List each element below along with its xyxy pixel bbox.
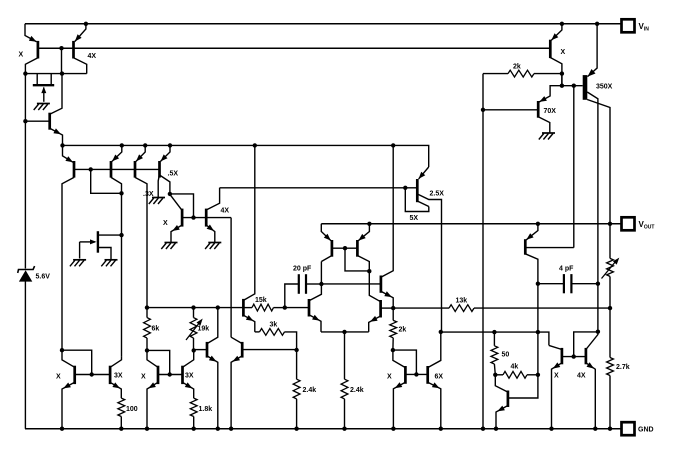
node dot bias bus left end: [60, 143, 64, 147]
transistor PNP source bar 74: [73, 161, 76, 178]
wire y307 row left: [147, 307, 243, 309]
node dot mid right base / 3k: [294, 348, 298, 352]
transistor PNP source bar 135: [134, 161, 137, 178]
wire bases to node: [61, 48, 63, 73]
transistor 4X4 emitter arrow: [587, 362, 595, 368]
transistor 5X collector diag: [417, 201, 429, 207]
wire VIN top rail: [25, 23, 622, 25]
transistor 3X1 emitter: [110, 382, 121, 398]
svg-text:2.5X: 2.5X: [430, 191, 445, 198]
resistor 50: [491, 346, 498, 364]
svg-text:4X: 4X: [577, 373, 586, 380]
node dot 2k node: [391, 306, 395, 310]
transistor mirPNP-R collector: [357, 256, 369, 272]
JFET J2 source: [98, 248, 111, 260]
svg-text:5.6V: 5.6V: [36, 274, 51, 281]
wire pair2 base line: [158, 374, 183, 376]
transistor 350X emitter: [588, 24, 598, 77]
svg-text:2.4k: 2.4k: [303, 387, 317, 394]
svg-text:X: X: [141, 374, 146, 381]
transistor X3 bar: [404, 366, 407, 384]
transistor midR collector: [231, 337, 242, 343]
node dot top rail / 4X emitter: [84, 22, 88, 26]
transistor midL emitter arrow: [209, 356, 217, 362]
terminal GND box: [622, 422, 635, 435]
wire 4k right lead: [527, 374, 538, 376]
node dot midL collector: [216, 305, 220, 309]
wire 15k left lead: [243, 307, 252, 309]
transistor lower NPN emitter arrow: [370, 316, 378, 322]
transistor upper NPN collector: [381, 145, 393, 277]
resistor 15k: [252, 304, 274, 311]
node dot 350X base mid: [572, 84, 576, 88]
wire out mirror base line: [562, 356, 586, 358]
svg-text:3k: 3k: [270, 322, 278, 329]
transistor X1 bar: [73, 366, 76, 384]
svg-text:1.8k: 1.8k: [199, 406, 213, 413]
transistor 4X top-left PNP collector: [74, 58, 87, 74]
transistor X4 emitter: [552, 363, 562, 429]
svg-text:2.4k: 2.4k: [350, 387, 364, 394]
node dot X4 emitter bus: [549, 427, 553, 431]
wire 100 bottom: [120, 417, 122, 429]
node dot X1 emitter bus: [60, 427, 64, 431]
node dot 2.7k bus: [608, 427, 612, 431]
transistor X4 bar: [561, 348, 564, 364]
zener D1 5.6V anode triangle: [19, 270, 32, 281]
transistor diffL emitter: [309, 315, 321, 332]
transistor PNP-111 emitter: [112, 145, 122, 161]
node dot 2k right: [560, 71, 564, 75]
node dot 2k bottom: [391, 348, 395, 352]
node dot Q4k emitter bus: [494, 427, 498, 431]
JFET J2 gate lead: [80, 241, 95, 243]
node dot mirror bases: [191, 215, 195, 219]
svg-text:X: X: [554, 373, 559, 380]
transistor midR emitter: [231, 356, 242, 429]
wire tail to 2.4k-2: [344, 332, 346, 379]
wire far-left vertical lower: [24, 282, 26, 429]
transistor 2.5X emitter arrow: [419, 172, 426, 179]
node dot jog base: [89, 167, 93, 171]
node dot 20pF node: [319, 282, 323, 286]
transistor lower NPN bar: [379, 300, 382, 318]
resistor 19k arrow tail: [186, 322, 200, 340]
transistor outPNP collector: [525, 254, 538, 375]
transistor X top-left PNP collector: [25, 58, 38, 74]
transistor 2.5X emitter: [419, 167, 429, 179]
transistor outPNP bar: [524, 239, 527, 255]
transistor X4 collector: [549, 345, 562, 349]
wire 20pF node to upper base: [321, 283, 381, 285]
node dot upper col bus: [391, 143, 395, 147]
transistor mirPNP-L bar: [331, 240, 334, 257]
transistor X3 emitter arrow: [395, 382, 403, 388]
wire 3k right: [285, 332, 297, 379]
transistor 350X collector 2: [587, 100, 610, 259]
ground J1 gate: [37, 103, 50, 105]
svg-text:2k: 2k: [513, 64, 521, 71]
node dot X3 emitter bus: [391, 427, 395, 431]
transistor midR emitter arrow: [232, 356, 240, 362]
resistor variable: [607, 258, 614, 276]
wire 6X collector row: [441, 332, 549, 345]
transistor Q4k collector: [495, 375, 508, 392]
wire PNP row diode jog: [91, 169, 122, 193]
node dot outPNP col 4pF: [536, 282, 540, 286]
transistor 70X collector: [538, 117, 550, 133]
transistor 3X1 bar: [109, 366, 112, 384]
svg-text:3X: 3X: [114, 373, 123, 380]
transistor 350X bar: [583, 75, 588, 100]
transistor PNP-111 emitter arrow: [112, 155, 119, 162]
transistor midR bar: [241, 342, 244, 358]
JFET J1 channel bar: [33, 84, 54, 86]
transistor PNP source bar 111: [110, 161, 113, 178]
node dot out mirror bases: [572, 354, 576, 358]
transistor 4X mirror bar: [205, 209, 208, 227]
resistor 2k top: [508, 70, 534, 77]
transistor PNP-74 emitter: [63, 145, 74, 162]
transistor outPNP emitter: [526, 224, 538, 240]
transistor XTR emitter: [551, 24, 562, 41]
transistor PNP-.5X collector: [160, 175, 170, 194]
transistor PNP-135 emitter: [136, 145, 145, 161]
node dot 6X collector: [439, 330, 443, 334]
transistor Q4k emitter: [496, 406, 508, 429]
resistor 100: [118, 398, 125, 416]
transistor X1 collector: [62, 350, 75, 367]
wire x483 vertical: [482, 74, 484, 429]
resistor 19k: [190, 318, 197, 338]
transistor 70X emitter arrow: [539, 96, 547, 102]
transistor PNP-111 collector: [111, 177, 122, 356]
transistor diffL collector: [309, 262, 321, 301]
capacitor 20 pF: [298, 274, 300, 294]
wire 3k left lead: [255, 331, 260, 333]
transistor 2.5X collector: [418, 194, 442, 332]
transistor Q15k emitter arrow: [246, 315, 254, 321]
transistor Q2 emitter: [50, 128, 63, 145]
node dot 2.4k-1 bus: [294, 427, 298, 431]
wire 2.4k-1 bottom: [296, 399, 298, 429]
transistor XTR emitter arrow: [551, 33, 558, 40]
node dot X3 jog base: [414, 372, 418, 376]
transistor Q4k emitter arrow: [497, 406, 505, 412]
svg-text:100: 100: [126, 406, 138, 413]
wire GND bus: [25, 428, 622, 430]
transistor PNP-135 collector: [135, 177, 147, 307]
transistor Q15k collector: [243, 145, 254, 300]
svg-text:15k: 15k: [255, 297, 267, 304]
wire mirror bases: [332, 247, 358, 249]
svg-text:2.7k: 2.7k: [616, 364, 630, 371]
wire pair1 base line: [75, 374, 110, 376]
transistor lower NPN collector: [369, 271, 380, 301]
ground 70X collector: [542, 132, 555, 134]
node dot 19k bottom: [192, 348, 196, 352]
transistor 6X bar: [426, 366, 429, 384]
node dot 19k top: [191, 305, 195, 309]
transistor Q2 emitter arrow: [53, 128, 61, 134]
node dot midR emitter bus: [229, 427, 233, 431]
JFET J1 gate lead: [43, 88, 45, 102]
node dot 13k right: [608, 306, 612, 310]
transistor 3X2 bar: [181, 366, 184, 384]
transistor 3X2 collector: [183, 350, 194, 367]
transistor outPNP emitter arrow: [526, 233, 533, 240]
wire mid pair right base: [242, 349, 296, 351]
wire 4k base drop: [508, 375, 538, 398]
terminal VIN box: [622, 19, 635, 32]
wire 13k row left: [393, 307, 449, 309]
node dot VOUT var: [608, 222, 612, 226]
wire comp node to diff base: [285, 307, 309, 309]
transistor X mirror emitter arrow: [172, 225, 180, 231]
svg-text:4k: 4k: [511, 363, 519, 370]
node dot 6k bottom: [145, 348, 149, 352]
wire 6k bottom: [146, 338, 148, 350]
svg-text:.3X: .3X: [143, 191, 154, 198]
wire X2 diode jog: [147, 350, 170, 374]
node dot .5X collector junction: [168, 192, 172, 196]
transistor X3 collector: [393, 350, 406, 368]
terminal VOUT box: [622, 217, 635, 230]
svg-text:X: X: [561, 49, 566, 56]
transistor mirPNP-R bar: [356, 240, 359, 257]
svg-text:350X: 350X: [596, 84, 613, 91]
node dot Q2 base: [23, 119, 27, 123]
transistor X2 emitter: [147, 382, 158, 428]
wire 6k top: [146, 308, 148, 318]
transistor Q2 base: [25, 120, 49, 122]
svg-text:X: X: [19, 52, 24, 59]
transistor Q2 collector: [50, 74, 62, 115]
resistor variable arrow: [613, 258, 619, 265]
wire VOUT rail: [321, 223, 621, 225]
node dot 6k top: [145, 305, 149, 309]
transistor Q4k bar: [507, 391, 510, 408]
transistor X4 emitter arrow: [553, 362, 561, 368]
node dot bias bus x121.8: [120, 143, 124, 147]
transistor lower NPN emitter: [369, 316, 381, 332]
transistor 70X bar: [537, 101, 540, 118]
svg-text:4 pF: 4 pF: [559, 266, 574, 273]
transistor 3X1 emitter arrow: [112, 382, 120, 388]
resistor 19k arrow: [197, 319, 203, 326]
transistor 350X emitter arrow: [588, 69, 596, 77]
wire mid pair left base: [194, 349, 207, 351]
transistor Q2 bar: [48, 113, 51, 130]
transistor mirPNP-R emitter arrow: [358, 234, 365, 241]
wire XTRcol to base node: [561, 74, 563, 86]
resistor 2.7k: [607, 358, 614, 376]
node dot Q15k collector bus: [253, 143, 257, 147]
transistor midL collector: [207, 308, 218, 344]
node dot 4k right: [536, 373, 540, 377]
node dot 100 bus: [119, 427, 123, 431]
transistor 6X emitter arrow: [432, 382, 440, 388]
resistor 1.8k: [190, 398, 197, 416]
transistor midL emitter: [207, 356, 218, 429]
wire x574 vertical: [573, 86, 575, 248]
transistor X1 emitter: [62, 382, 75, 428]
transistor X2 bar: [157, 366, 160, 384]
wire PNP row base line: [74, 168, 160, 170]
svg-text:X: X: [387, 374, 392, 381]
wire 15k to node: [274, 307, 285, 309]
wire base rail (second rail): [38, 47, 550, 49]
resistor 3k: [260, 329, 285, 336]
svg-text:20 pF: 20 pF: [293, 266, 312, 273]
transistor XTR bar: [549, 40, 552, 58]
transistor outPNP base: [525, 247, 574, 249]
wire 4pF left: [538, 283, 564, 285]
node dot outPNP col 332: [536, 330, 540, 334]
transistor 3X1 collector: [110, 357, 121, 368]
transistor 350X base: [562, 85, 583, 87]
node dot mirror bases: [343, 246, 347, 250]
node dot mirPNP-R emitter rail: [367, 222, 371, 226]
wire 5X diode loop: [405, 188, 429, 212]
transistor X top-left PNP emitter: [25, 24, 37, 42]
svg-text:2k: 2k: [399, 327, 407, 334]
transistor PNP source bar 159.5: [158, 161, 161, 178]
wire x610 mid segment: [609, 276, 611, 357]
transistor 6X emitter: [428, 382, 441, 429]
svg-text:13k: 13k: [456, 298, 468, 305]
wire mirror jog: [170, 194, 194, 218]
wire 50 top lead: [493, 332, 495, 346]
svg-text:GND: GND: [638, 427, 654, 434]
svg-text:4X: 4X: [221, 208, 230, 215]
transistor 4X top-left PNP emitter arrow: [75, 34, 82, 41]
node dot PNP111 col mid: [119, 233, 123, 237]
svg-text:19k: 19k: [198, 326, 210, 333]
transistor X mirror bar: [181, 209, 184, 227]
node dot midL emitter bus: [216, 427, 220, 431]
transistor X mirror emitter: [171, 225, 182, 242]
node dot diff tail: [342, 330, 346, 334]
transistor 4X4 bar: [585, 348, 588, 364]
transistor mirPNP-R emitter: [358, 224, 369, 241]
resistor 13k: [449, 305, 474, 312]
svg-text:X: X: [56, 374, 61, 381]
transistor lower NPN base: [381, 307, 394, 309]
transistor X1 emitter arrow: [63, 383, 71, 389]
wire out mirror jog: [574, 332, 598, 357]
node dot 4pF right: [596, 282, 600, 286]
wire mirror diode jog: [345, 248, 369, 271]
transistor Q15k emitter: [243, 315, 254, 332]
transistor X top-left PNP bar: [37, 41, 40, 59]
transistor mirPNP-L collector: [321, 256, 332, 262]
wire 20pF right: [306, 283, 321, 285]
node dot mid x62: [60, 71, 64, 75]
wire X6X base line: [405, 373, 427, 375]
wire X1 diode jog: [62, 350, 92, 374]
node dot 4X4 emitter bus: [593, 427, 597, 431]
svg-text:50: 50: [502, 352, 510, 359]
svg-text:5X: 5X: [410, 215, 419, 222]
svg-text:6k: 6k: [152, 326, 160, 333]
transistor 4X top-left PNP bar: [72, 41, 75, 59]
wire far-left vertical: [24, 74, 26, 269]
transistor X top-left PNP emitter arrow: [29, 36, 37, 42]
transistor 4X mirror emitter arrow: [207, 225, 214, 232]
transistor PNP-159.5 emitter: [161, 145, 171, 161]
node dot 6X emitter bus: [439, 427, 443, 431]
wire 19k bottom: [193, 338, 195, 350]
transistor upper NPN emitter arrow: [384, 291, 392, 297]
wire 1.8k bottom: [193, 417, 195, 429]
transistor upper NPN emitter: [381, 291, 393, 308]
transistor mirPNP-L emitter: [321, 224, 331, 241]
transistor 3X2 emitter: [183, 382, 194, 398]
wire mirror base line: [182, 217, 231, 219]
svg-text:6X: 6X: [435, 374, 444, 381]
wire 2k right: [534, 73, 562, 75]
resistor 6k: [144, 318, 151, 338]
node dot 70X emitter node: [560, 84, 564, 88]
ground X mirror emitter: [165, 242, 178, 244]
wire 4k left lead: [495, 374, 503, 376]
resistor 2.4k first: [293, 379, 300, 399]
transistor mirPNP-L emitter arrow: [324, 234, 331, 241]
transistor 4X mirror emitter: [206, 225, 215, 242]
transistor diffL bar: [308, 299, 311, 317]
resistor 4k: [503, 371, 527, 378]
wire 13k row right: [474, 307, 610, 309]
wire 4pF right: [571, 283, 598, 285]
JFET J2 gate arrow: [90, 239, 97, 244]
transistor PNP-.3X collector stub: [158, 174, 159, 197]
ground 4X mirror emitter: [208, 242, 221, 244]
wire 2.4k-2 bottom: [344, 399, 346, 429]
svg-text:3X: 3X: [185, 373, 194, 380]
transistor PNP-74 emitter arrow: [65, 156, 73, 162]
wire 4X collector to 2.5X base: [220, 187, 418, 189]
node dot X1 jog base: [90, 372, 94, 376]
wire 2k bottom lead: [392, 338, 394, 350]
transistor PNP-74 collector: [62, 177, 74, 350]
transistor 2.5X bar: [416, 179, 419, 202]
node dot bases on rail2: [59, 46, 63, 50]
node dot XTR emitter rail: [560, 22, 564, 26]
svg-text:X: X: [163, 220, 168, 227]
transistor X2 collector: [147, 350, 158, 367]
node dot 1.8k bus: [192, 427, 196, 431]
node dot X2 jog base: [168, 372, 172, 376]
svg-text:.5X: .5X: [168, 171, 179, 178]
node dot jog collector: [119, 191, 123, 195]
node dot 2.5X base: [403, 186, 407, 190]
node dot 4X out collector: [596, 330, 600, 334]
transistor PNP-135 emitter arrow: [136, 154, 143, 161]
ground .3X collector: [152, 197, 165, 199]
wire node row y73.6: [25, 73, 86, 75]
ground J2 source: [105, 259, 118, 261]
transistor upper NPN bar: [380, 276, 383, 293]
JFET J2 gate to gnd: [79, 242, 81, 259]
transistor 70X base: [483, 109, 538, 111]
ground J2 gate: [73, 259, 86, 261]
wire comp riser: [285, 284, 299, 308]
svg-text:70X: 70X: [544, 108, 557, 115]
transistor 350X collector 1: [587, 92, 598, 332]
wire mirror base drop: [230, 218, 232, 338]
wire 2k top lead: [392, 308, 394, 320]
